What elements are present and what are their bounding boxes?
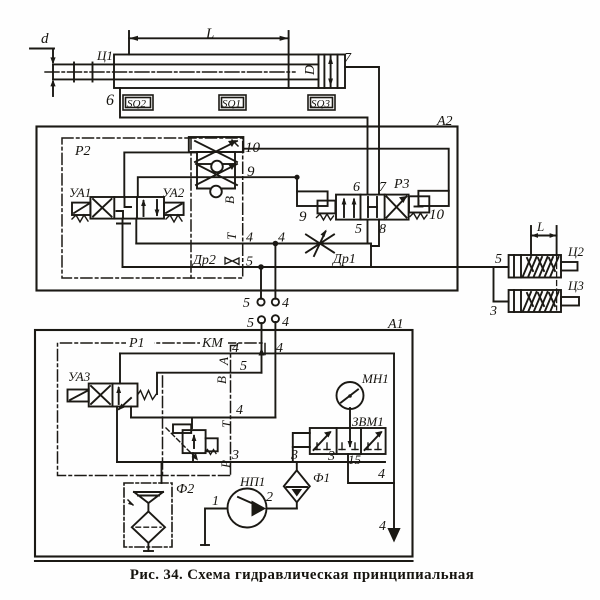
svg-text:А2: А2	[436, 114, 453, 129]
svg-text:SQ2: SQ2	[127, 98, 146, 110]
svg-text:Т: Т	[219, 420, 234, 428]
svg-text:УА1: УА1	[69, 185, 91, 200]
svg-text:4: 4	[378, 467, 385, 482]
svg-text:4: 4	[236, 403, 243, 418]
svg-text:В: В	[214, 376, 229, 384]
svg-text:Р: Р	[218, 460, 233, 469]
svg-text:5: 5	[243, 296, 250, 311]
svg-text:МН1: МН1	[361, 371, 389, 386]
svg-text:SQ3: SQ3	[311, 98, 330, 110]
svg-text:УА3: УА3	[68, 369, 91, 384]
svg-text:Т: Т	[224, 232, 239, 240]
svg-text:7: 7	[379, 180, 387, 195]
svg-text:6: 6	[353, 180, 360, 195]
svg-text:4: 4	[379, 519, 386, 534]
svg-text:3: 3	[231, 448, 239, 463]
svg-text:Р3: Р3	[393, 177, 410, 192]
svg-text:d: d	[41, 31, 49, 47]
svg-text:5: 5	[495, 252, 502, 267]
svg-text:D: D	[303, 65, 318, 76]
svg-text:Ф1: Ф1	[313, 470, 330, 485]
svg-text:L: L	[205, 26, 214, 42]
svg-text:SQ1: SQ1	[222, 98, 241, 110]
svg-text:L: L	[536, 219, 544, 234]
svg-text:Рис. 34. Схема гидравлическая: Рис. 34. Схема гидравлическая принципиал…	[130, 567, 474, 583]
svg-text:4: 4	[282, 296, 289, 311]
svg-text:5: 5	[355, 222, 362, 237]
svg-text:Ц3: Ц3	[567, 278, 584, 293]
svg-text:ЗВМ1: ЗВМ1	[352, 414, 384, 429]
svg-text:3: 3	[327, 449, 335, 464]
svg-text:4: 4	[246, 231, 253, 246]
svg-text:10: 10	[429, 207, 445, 223]
svg-text:Ф2: Ф2	[176, 482, 194, 497]
svg-text:8: 8	[379, 222, 386, 237]
svg-text:5: 5	[247, 316, 254, 331]
svg-text:5: 5	[240, 359, 247, 374]
svg-text:Др1: Др1	[331, 252, 356, 267]
svg-text:4: 4	[282, 315, 289, 330]
svg-text:КМ: КМ	[201, 336, 224, 351]
svg-text:7: 7	[344, 51, 352, 66]
svg-text:2: 2	[266, 490, 273, 505]
svg-text:Р2: Р2	[74, 144, 91, 159]
svg-text:УА2: УА2	[162, 185, 185, 200]
svg-text:4: 4	[278, 231, 285, 246]
svg-text:3: 3	[290, 448, 298, 463]
svg-text:6: 6	[106, 92, 114, 109]
svg-text:Р1: Р1	[128, 336, 145, 351]
svg-text:4: 4	[232, 341, 239, 356]
svg-text:Ц1: Ц1	[96, 48, 113, 63]
svg-text:1: 1	[212, 494, 219, 509]
svg-text:А: А	[216, 357, 231, 366]
svg-text:9: 9	[299, 209, 307, 225]
svg-text:Др2: Др2	[191, 253, 216, 268]
svg-text:4: 4	[276, 341, 283, 356]
svg-text:5: 5	[246, 255, 253, 270]
svg-text:3: 3	[489, 304, 497, 319]
svg-text:НП1: НП1	[239, 474, 265, 489]
svg-text:В: В	[222, 196, 237, 204]
svg-text:Ц2: Ц2	[567, 244, 584, 259]
svg-text:А1: А1	[387, 317, 404, 332]
